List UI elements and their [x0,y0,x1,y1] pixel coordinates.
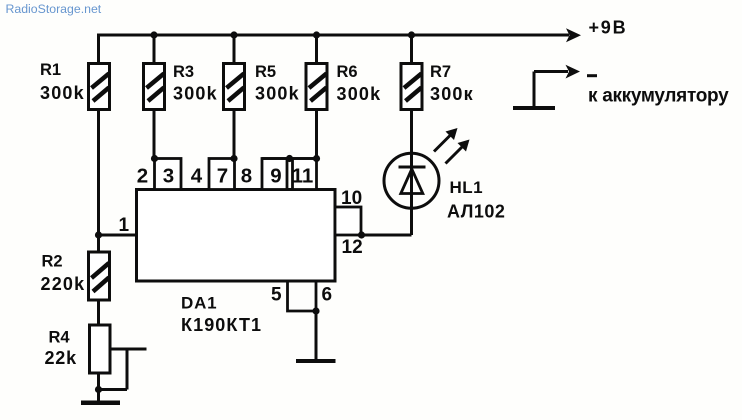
svg-text:R4: R4 [49,329,71,347]
LED light arrow 1 [434,128,458,152]
svg-text:5: 5 [271,285,282,306]
resistor R3 [144,64,165,110]
junction dot pin1 [95,231,102,238]
junction dot box9-11 [286,155,293,162]
wire +9V top rail [99,34,570,37]
svg-text:R5: R5 [255,63,276,81]
wire R3 bottom lead [153,109,156,159]
wire R6 top lead [315,34,318,65]
svg-text:+9В: +9В [589,18,628,38]
resistor R2 [89,252,110,300]
svg-text:22k: 22k [45,348,78,368]
svg-text:300к: 300к [430,84,474,104]
svg-text:R3: R3 [173,63,194,81]
wire pin6 to ground [315,311,318,361]
wire pin1 [99,234,138,237]
pin box 9 [262,159,287,190]
svg-text:К190КТ1: К190КТ1 [181,315,262,335]
svg-text:220k: 220k [41,274,86,294]
wire R3 top lead [153,34,156,65]
pin box 7 [209,159,235,190]
resistor R6 [306,64,327,110]
junction dot box3 [151,155,158,162]
resistor R4 [90,325,111,373]
svg-text:R6: R6 [337,63,358,81]
battery connector symbol [533,72,536,109]
svg-text:7: 7 [217,165,228,188]
svg-text:2: 2 [137,165,148,188]
LED HL1 [384,153,439,208]
wire R1 top lead [97,34,100,65]
svg-text:300k: 300k [337,84,382,104]
svg-text:1: 1 [119,215,130,236]
junction dot rail-R3 [150,31,157,38]
ground bottom-left [81,401,120,406]
junction dot rail-R5 [230,31,237,38]
svg-text:HL1: HL1 [450,178,484,197]
wire R1 bottom lead [97,109,100,253]
svg-text:R7: R7 [430,63,451,81]
junction dot rail-R6 [313,31,320,38]
op-amp / IC DA1 body [137,190,336,282]
junction dot pin6 [312,307,319,314]
junction dot rail-R7 [408,31,415,38]
svg-text:300k: 300k [40,83,85,103]
svg-text:6: 6 [322,285,333,306]
svg-text:3: 3 [163,165,174,188]
wire over pin boxes 9-11 [262,157,317,160]
resistor R7 [401,64,422,110]
svg-text:АЛ102: АЛ102 [447,202,505,222]
LED light arrow 2 [446,140,470,164]
wire R5 top lead [233,34,236,65]
wire R2-R4 [97,299,100,326]
resistor R1 [89,64,110,110]
wire R5 bottom lead [233,109,236,159]
svg-text:300k: 300k [255,84,300,104]
pin box 11 [293,159,317,190]
svg-text:RadioStorage.net: RadioStorage.net [6,2,102,16]
wire pin12 to LED [361,234,412,237]
resistor R5 [224,64,245,110]
junction dot R4-wiper [95,386,102,393]
junction dot box11-R6 [313,155,320,162]
svg-text:10: 10 [341,188,362,209]
svg-text:4: 4 [191,165,203,188]
svg-text:12: 12 [342,237,363,258]
junction dot box7 [230,155,237,162]
svg-text:8: 8 [241,165,252,188]
ground middle [296,359,336,363]
wire R4 wiper tap [110,348,147,351]
wire R4 to ground [97,372,100,403]
svg-text:11: 11 [292,165,314,188]
pin box 5/6 [288,281,317,311]
minus sign [587,74,597,77]
junction dot pin12 [358,231,365,238]
pin box 10/12 [335,207,361,235]
wire R7 top lead [410,34,413,64]
wire R6 bottom lead [315,109,318,159]
svg-text:R1: R1 [40,61,61,79]
svg-text:9: 9 [270,165,281,188]
svg-text:300k: 300k [173,84,218,104]
wire R7 to LED to pin12 node [410,109,413,235]
pin box 3 [155,159,182,190]
svg-text:к аккумулятору: к аккумулятору [588,86,729,107]
svg-text:R2: R2 [42,253,63,271]
svg-text:DA1: DA1 [181,294,217,313]
+9V arrowhead [566,28,581,42]
